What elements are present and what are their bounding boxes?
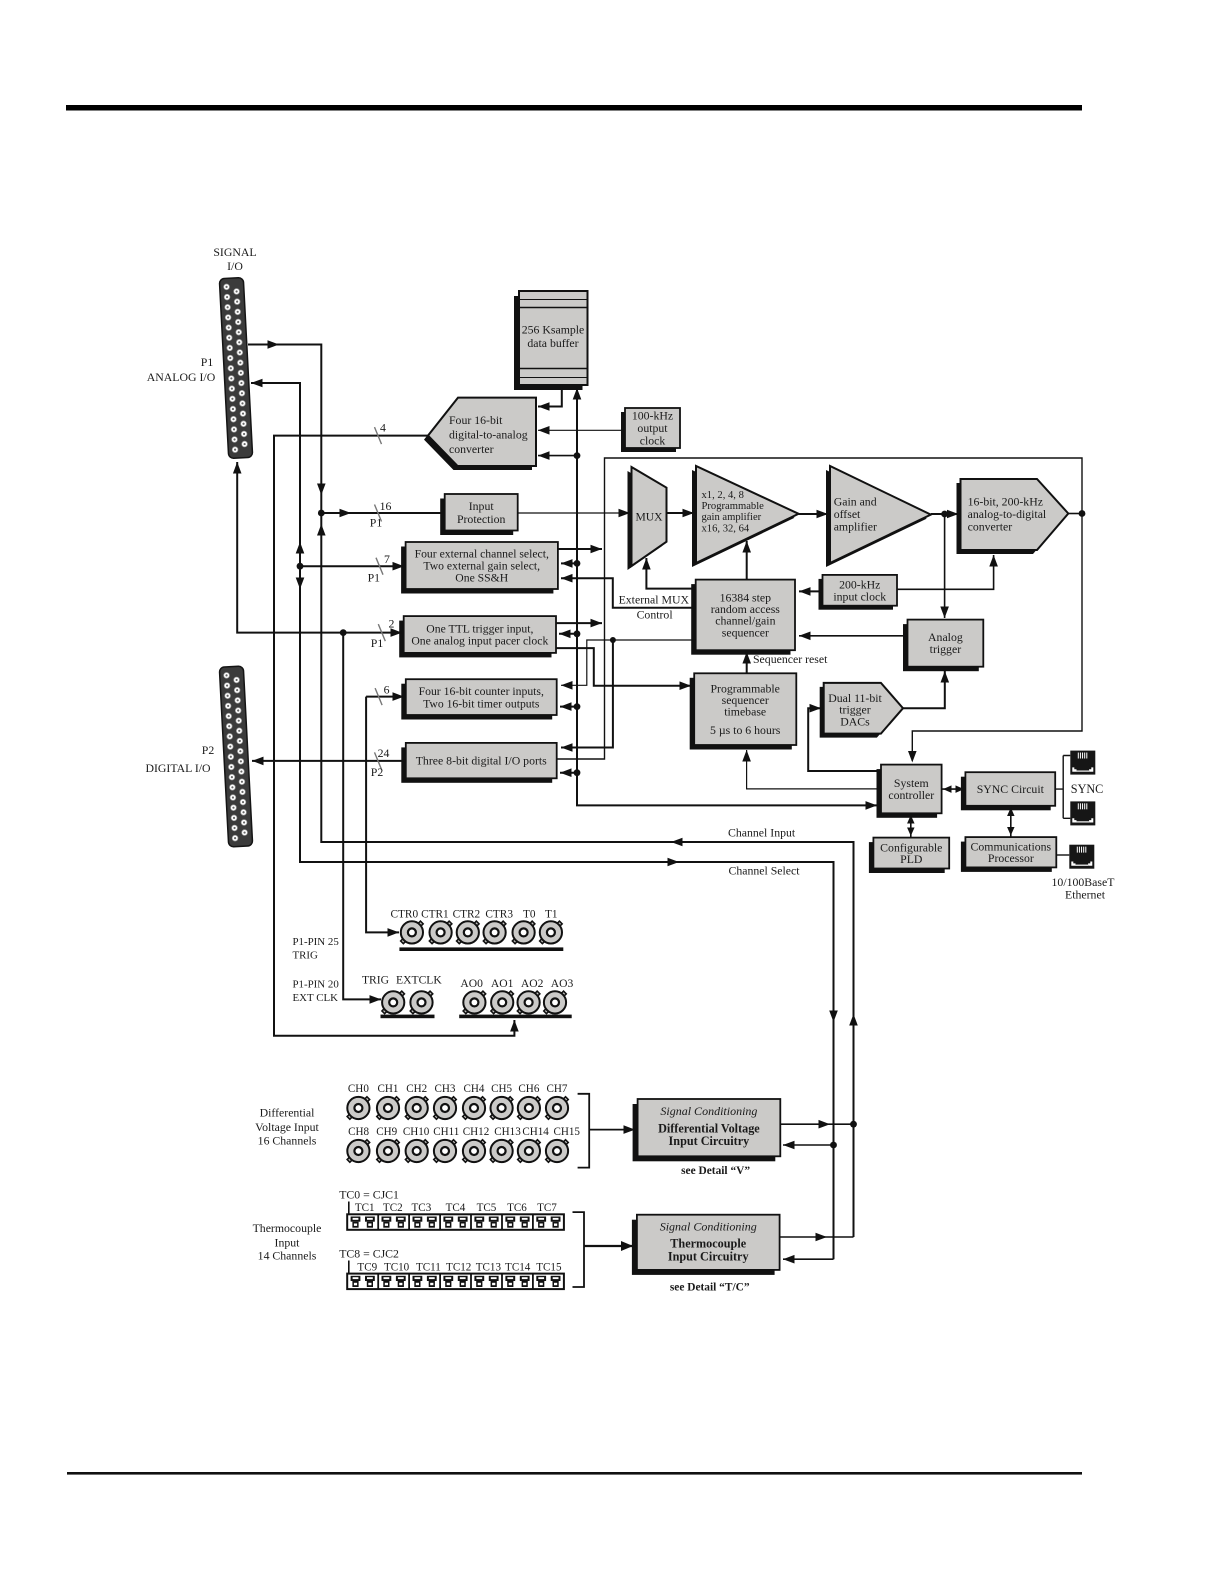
- svg-text:AO2: AO2: [521, 977, 544, 990]
- wire: external MUX control: [561, 574, 696, 608]
- wire: bus tap to digital I/O box: [560, 768, 577, 777]
- svg-text:see Detail “T/C”: see Detail “T/C”: [670, 1282, 750, 1294]
- label 16 P1: [370, 499, 392, 530]
- label P1 ANALOG I/O: [147, 355, 216, 384]
- svg-text:converter: converter: [968, 520, 1013, 534]
- labels TC1-TC7: [355, 1202, 557, 1214]
- wire: P1 out to channel-input bus: [248, 340, 858, 1237]
- svg-text:TC13: TC13: [476, 1262, 502, 1274]
- svg-text:P2: P2: [371, 765, 384, 779]
- wire: analog trigger to sequencer: [799, 632, 908, 641]
- wire: sequencer to PGA gain control: [742, 541, 751, 580]
- box: Signal Conditioning - Differential Voltage Input Circuitry: [633, 1099, 781, 1161]
- svg-text:converter: converter: [449, 442, 494, 456]
- svg-text:External MUX: External MUX: [619, 593, 690, 607]
- labels CH8-CH15: [348, 1126, 580, 1138]
- wire: SYNC circuit to communications processor: [1007, 806, 1015, 837]
- wire: channel select into thermo box: [783, 1255, 834, 1264]
- svg-text:24: 24: [378, 746, 390, 760]
- wire: diff box channel input out: [780, 1120, 853, 1129]
- label TC0 = CJC1: [339, 1188, 399, 1215]
- wire: 7 external channel/gain select (P1): [300, 558, 404, 575]
- wire: gain amp to ADC + branch to analog trigger: [931, 510, 959, 618]
- labels TC9-TC15: [357, 1262, 562, 1274]
- wire: communications processor to ethernet jack: [1056, 854, 1069, 856]
- wire: TTL trigger + pacer clock (P1): [233, 462, 402, 641]
- wire: 24 digital I/O lines to P2: [252, 752, 406, 769]
- svg-text:CH14: CH14: [522, 1126, 549, 1138]
- wire: bus tap to TTL trigger box: [559, 630, 577, 639]
- svg-text:Signal Conditioning: Signal Conditioning: [660, 1104, 757, 1118]
- ADC: 16-bit 200-kHz analog-to-digital converter: [957, 479, 1069, 554]
- svg-text:CH5: CH5: [491, 1083, 512, 1095]
- wire: bus tap to DAC: [538, 451, 577, 460]
- svg-text:TC9: TC9: [357, 1262, 377, 1274]
- wire: sequencer bus to digital I/O box: [561, 640, 613, 752]
- wire: sequencer reset: [742, 652, 751, 673]
- svg-text:Four 16-bit: Four 16-bit: [449, 413, 503, 427]
- wire: PGA to gain/offset amp: [799, 510, 828, 519]
- svg-text:P1-PIN 20: P1-PIN 20: [293, 979, 340, 991]
- svg-text:CTR2: CTR2: [453, 909, 481, 921]
- label P1-PIN 20 EXT CLK: [293, 979, 340, 1005]
- svg-text:TC3: TC3: [412, 1202, 432, 1214]
- svg-text:Three 8-bit digital I/O ports: Three 8-bit digital I/O ports: [416, 754, 547, 768]
- svg-text:Control: Control: [637, 608, 674, 622]
- DAC: Dual 11-bit trigger DACs: [820, 683, 903, 738]
- svg-text:TC7: TC7: [537, 1202, 557, 1214]
- memory buffer: 256 Ksample data buffer: [514, 291, 588, 390]
- box: Analog trigger: [903, 620, 983, 672]
- connector P1 (SIGNAL I/O, 37-pin): [219, 277, 252, 458]
- label Thermocouple Input 14 Channels: [253, 1221, 322, 1263]
- svg-text:Differential: Differential: [260, 1106, 316, 1120]
- bracket: differential BNC group: [578, 1094, 635, 1168]
- svg-text:CH2: CH2: [406, 1083, 427, 1095]
- label 24 P2: [371, 746, 390, 779]
- svg-text:Two 16-bit timer outputs: Two 16-bit timer outputs: [423, 697, 540, 710]
- wire: trigger DACs to analog trigger: [903, 671, 949, 708]
- label 4: [380, 421, 386, 435]
- svg-text:CH0: CH0: [348, 1083, 369, 1095]
- svg-text:TC6: TC6: [507, 1202, 527, 1214]
- wire: bus tap to counter box: [560, 702, 577, 711]
- svg-text:x16, 32, 64: x16, 32, 64: [702, 524, 750, 535]
- underline TRIG row: [381, 1015, 435, 1019]
- wire: SYNC circuit to jacks: [1055, 756, 1070, 819]
- svg-text:P2: P2: [202, 743, 215, 757]
- wire: bus tap to channel select box: [561, 559, 577, 568]
- svg-text:Four 16-bit counter inputs,: Four 16-bit counter inputs,: [419, 685, 544, 698]
- svg-text:MUX: MUX: [635, 511, 663, 524]
- svg-text:CH12: CH12: [463, 1126, 490, 1138]
- svg-text:Programmable: Programmable: [702, 501, 765, 512]
- svg-text:TRIG: TRIG: [362, 974, 390, 987]
- svg-text:SIGNAL: SIGNAL: [213, 245, 256, 259]
- svg-text:data buffer: data buffer: [527, 336, 578, 350]
- underline CTR row: [399, 947, 563, 951]
- svg-text:I/O: I/O: [227, 259, 243, 273]
- svg-text:4: 4: [380, 421, 386, 435]
- svg-text:TRIG: TRIG: [293, 950, 319, 962]
- wire: buffer to DAC: [538, 385, 562, 411]
- svg-text:CH4: CH4: [464, 1083, 485, 1095]
- labels TRIG EXTCLK: [362, 974, 442, 987]
- label SIGNAL I/O: [213, 245, 256, 273]
- label 10/100BaseT Ethernet: [1052, 875, 1116, 902]
- label P1-PIN 25 TRIG: [293, 936, 340, 962]
- svg-text:One analog input pacer clock: One analog input pacer clock: [411, 634, 548, 647]
- svg-text:TC5: TC5: [477, 1202, 497, 1214]
- svg-text:Input Circuitry: Input Circuitry: [669, 1134, 750, 1148]
- svg-text:CH10: CH10: [403, 1126, 430, 1138]
- thermocouple jack strip TC9-TC15: [347, 1274, 564, 1290]
- svg-text:Voltage Input: Voltage Input: [255, 1120, 319, 1134]
- svg-text:x1, 2, 4, 8: x1, 2, 4, 8: [702, 490, 744, 501]
- BNC connectors CTR0-T1: [401, 921, 562, 943]
- svg-text:256 Ksample: 256 Ksample: [522, 323, 585, 337]
- label TC8 = CJC2: [339, 1247, 399, 1274]
- svg-text:SYNC Circuit: SYNC Circuit: [977, 782, 1045, 796]
- wire: external channel select out: [558, 545, 602, 554]
- svg-text:TC12: TC12: [446, 1262, 471, 1274]
- box: Input Protection: [440, 494, 518, 535]
- wire: system controller to timebase: [742, 750, 881, 789]
- svg-text:sequencer: sequencer: [722, 625, 769, 639]
- svg-text:CH15: CH15: [553, 1126, 580, 1138]
- BNC connectors AO0-AO3: [463, 991, 566, 1013]
- box: System controller: [877, 765, 942, 818]
- svg-text:EXT CLK: EXT CLK: [293, 992, 339, 1004]
- svg-text:One SS&H: One SS&H: [455, 571, 508, 584]
- svg-text:CH6: CH6: [518, 1083, 539, 1095]
- svg-text:TC11: TC11: [416, 1262, 441, 1274]
- svg-text:input clock: input clock: [833, 589, 886, 603]
- wire: 6 counter/timer to counter box: [366, 688, 404, 705]
- MUX multiplexer: [628, 467, 667, 570]
- svg-text:gain amplifier: gain amplifier: [702, 512, 762, 523]
- wire: 200-kHz input clock to ADC: [897, 555, 998, 589]
- box: SYNC Circuit: [961, 772, 1055, 810]
- wire: system controller to trigger DACs: [808, 704, 881, 771]
- Ethernet jack: [1069, 845, 1094, 869]
- labels CTR0-T1: [390, 909, 557, 921]
- svg-text:TC8 = CJC2: TC8 = CJC2: [339, 1247, 399, 1261]
- label see Detail V: [681, 1165, 750, 1177]
- box: Communications Processor: [961, 837, 1056, 872]
- svg-text:Signal Conditioning: Signal Conditioning: [660, 1220, 757, 1234]
- svg-text:TC10: TC10: [384, 1262, 410, 1274]
- box: One TTL trigger input / One analog input pacer clock: [399, 616, 556, 657]
- svg-text:P1: P1: [201, 355, 214, 369]
- label Sequencer reset: [753, 652, 828, 666]
- svg-text:P1: P1: [371, 636, 384, 650]
- svg-text:DIGITAL I/O: DIGITAL I/O: [145, 761, 211, 775]
- svg-text:Channel Select: Channel Select: [728, 864, 800, 878]
- svg-text:CTR3: CTR3: [485, 909, 513, 921]
- label see Detail T/C: [670, 1282, 750, 1294]
- svg-text:16: 16: [380, 499, 392, 513]
- wire: MUX to PGA: [667, 509, 695, 518]
- svg-text:TC2: TC2: [383, 1202, 403, 1214]
- svg-text:TC0 = CJC1: TC0 = CJC1: [339, 1188, 399, 1202]
- BNC connectors TRIG EXTCLK: [382, 991, 433, 1013]
- svg-text:P1: P1: [368, 571, 381, 585]
- svg-text:Input Circuitry: Input Circuitry: [668, 1250, 749, 1264]
- wire: 200-kHz input clock to sequencer: [799, 587, 823, 596]
- wire: system controller to configurable PLD: [907, 813, 915, 837]
- clock box: 200-kHz input clock: [819, 575, 898, 610]
- BNC connectors CH8-CH15: [347, 1140, 568, 1162]
- wire: sequencer to MUX: [642, 558, 696, 589]
- svg-text:CH9: CH9: [376, 1126, 397, 1138]
- svg-text:Input: Input: [275, 1236, 301, 1250]
- svg-text:5 µs to 6 hours: 5 µs to 6 hours: [710, 723, 781, 737]
- svg-text:CTR1: CTR1: [421, 909, 449, 921]
- box: Programmable sequencer timebase, 5 us to 6 hours: [690, 673, 797, 749]
- svg-text:Ethernet: Ethernet: [1065, 888, 1106, 902]
- svg-text:TC4: TC4: [446, 1202, 466, 1214]
- svg-text:timebase: timebase: [724, 705, 766, 719]
- svg-text:CH3: CH3: [435, 1083, 456, 1095]
- wire: 16 analog inputs (P1) to Input Protection: [321, 505, 443, 522]
- labels CH0-CH7: [348, 1083, 568, 1095]
- label SYNC: [1071, 782, 1104, 796]
- label 6: [384, 683, 390, 697]
- wire: sequencer to counter box: [561, 637, 696, 690]
- wire: system controller to SYNC circuit: [942, 785, 966, 793]
- box: Three 8-bit digital I/O ports: [401, 743, 556, 783]
- wire: thermo box channel input out: [780, 1233, 853, 1242]
- BNC connectors CH0-CH7: [347, 1097, 568, 1119]
- svg-text:T0: T0: [523, 909, 536, 921]
- svg-text:AO0: AO0: [460, 977, 483, 990]
- svg-text:T1: T1: [545, 909, 558, 921]
- label Channel Input: [728, 826, 796, 840]
- SYNC jack lower: [1070, 801, 1095, 825]
- svg-text:digital-to-analog: digital-to-analog: [449, 428, 528, 442]
- svg-text:P1: P1: [370, 516, 383, 530]
- box: Four external channel select / Two external gain select / One SS&amp;H: [401, 542, 558, 594]
- label P2 DIGITAL I/O: [145, 743, 214, 775]
- svg-text:EXTCLK: EXTCLK: [396, 974, 442, 987]
- svg-text:TC15: TC15: [536, 1262, 562, 1274]
- svg-text:trigger: trigger: [930, 642, 962, 656]
- wire: 4 DAC outputs to AO BNCs: [274, 427, 519, 1036]
- svg-text:2: 2: [389, 617, 395, 631]
- svg-text:TC1: TC1: [355, 1202, 375, 1214]
- svg-text:Processor: Processor: [988, 851, 1034, 865]
- svg-text:PLD: PLD: [900, 852, 923, 866]
- svg-text:AO3: AO3: [551, 977, 574, 990]
- svg-text:CH7: CH7: [547, 1083, 568, 1095]
- svg-text:see Detail “V”: see Detail “V”: [681, 1165, 750, 1177]
- wire: trigger to TRIG BNC: [343, 633, 381, 1004]
- svg-text:CH8: CH8: [348, 1126, 369, 1138]
- svg-text:AO1: AO1: [491, 977, 514, 990]
- wire: ADC output to bus frame: [1068, 510, 1085, 517]
- svg-text:P1-PIN 25: P1-PIN 25: [293, 936, 340, 948]
- svg-text:CH1: CH1: [378, 1083, 399, 1095]
- label External MUX Control: [619, 593, 690, 622]
- svg-text:amplifier: amplifier: [834, 520, 877, 534]
- bottom horizontal rule: [67, 1472, 1082, 1475]
- bracket: thermocouple group: [573, 1212, 634, 1287]
- box: Signal Conditioning - Thermocouple Input Circuitry: [632, 1215, 780, 1275]
- label 2 P1: [371, 617, 395, 651]
- svg-text:7: 7: [384, 552, 390, 566]
- box: Four 16-bit counter inputs / Two 16-bit timer outputs: [401, 679, 556, 719]
- top horizontal rule: [66, 105, 1082, 111]
- analog section border / bus frame: [557, 458, 1082, 763]
- wire: channel select into diff box: [783, 1141, 834, 1150]
- labels AO0-AO3: [460, 977, 573, 990]
- svg-text:Protection: Protection: [457, 512, 506, 526]
- label 7 P1: [368, 552, 390, 585]
- wire: 6 counter/timer lines to BNCs: [366, 697, 399, 937]
- svg-text:Channel Input: Channel Input: [728, 826, 796, 840]
- svg-text:CH11: CH11: [433, 1126, 459, 1138]
- svg-text:controller: controller: [888, 788, 934, 802]
- wire: Input Protection to MUX: [518, 509, 630, 518]
- box: Configurable PLD: [869, 838, 949, 873]
- svg-text:DACs: DACs: [840, 715, 870, 729]
- connector P2 (DIGITAL I/O, 37-pin): [219, 666, 252, 847]
- box: 16384 step random access channel/gain sequencer: [691, 580, 795, 655]
- svg-text:16 Channels: 16 Channels: [258, 1134, 317, 1148]
- DAC: Four 16-bit digital-to-analog converter: [424, 398, 536, 470]
- svg-text:CTR0: CTR0: [390, 909, 418, 921]
- label Differential Voltage Input 16 Channels: [255, 1106, 319, 1148]
- svg-text:ANALOG I/O: ANALOG I/O: [147, 370, 216, 384]
- svg-text:14 Channels: 14 Channels: [258, 1249, 317, 1263]
- clock box: 100-kHz output clock: [621, 408, 680, 452]
- wire: main data bus (buffer to system controller): [573, 388, 877, 810]
- svg-text:6: 6: [384, 683, 390, 697]
- svg-text:TC14: TC14: [505, 1262, 531, 1274]
- wire: 100-kHz output clock to DAC: [538, 426, 625, 435]
- SYNC jack upper: [1070, 751, 1095, 775]
- thermocouple jack strip TC1-TC7: [347, 1214, 564, 1230]
- svg-text:Sequencer reset: Sequencer reset: [753, 652, 828, 666]
- svg-text:Thermocouple: Thermocouple: [670, 1237, 746, 1251]
- svg-text:Input: Input: [469, 499, 495, 513]
- svg-text:CH13: CH13: [494, 1126, 521, 1138]
- wire: TTL trigger out: [556, 619, 602, 628]
- amplifier: x1,2,4,8 programmable gain amplifier: [692, 466, 799, 567]
- svg-text:Thermocouple: Thermocouple: [253, 1221, 322, 1235]
- wire: channel-select bus to P1: [251, 379, 838, 1259]
- svg-text:SYNC: SYNC: [1071, 782, 1104, 796]
- label Channel Select: [728, 864, 800, 878]
- underline AO row: [459, 1015, 572, 1019]
- amplifier: gain and offset amplifier: [826, 466, 931, 567]
- wire: TTL trigger box to timebase: [556, 648, 691, 690]
- svg-text:clock: clock: [640, 434, 666, 448]
